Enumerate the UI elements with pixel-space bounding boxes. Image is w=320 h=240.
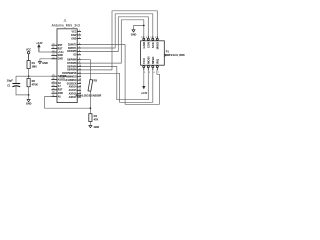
wire from P1 bottom pin 1 to +3.3V bbox=[143, 70, 145, 86]
svg-text:5: 5 bbox=[150, 37, 151, 39]
svg-text:D9/PWM: D9/PWM bbox=[67, 70, 76, 72]
svg-text:D3/INT1: D3/INT1 bbox=[68, 48, 77, 50]
svg-text:470K: 470K bbox=[32, 83, 38, 87]
svg-text:CSN: CSN bbox=[146, 42, 150, 48]
svg-text:22: 22 bbox=[52, 51, 54, 53]
ground symbol near P1 top bbox=[132, 30, 135, 32]
J1 value label Arduino_Mini_3v3 bbox=[52, 23, 80, 27]
svg-text:GND: GND bbox=[131, 34, 137, 37]
R1 reference label bbox=[32, 61, 36, 65]
IC P1 NRF24L01_BRK body bbox=[141, 41, 165, 65]
svg-text:28: 28 bbox=[52, 85, 54, 87]
svg-text:ANALOGSENSOR: ANALOGSENSOR bbox=[75, 93, 102, 97]
svg-text:6: 6 bbox=[79, 50, 80, 52]
R2 value 470K bbox=[32, 83, 38, 87]
junction R1/R2/J1 tap bbox=[28, 75, 30, 77]
svg-text:1M0: 1M0 bbox=[32, 65, 38, 69]
junction C1/R2/ground bbox=[28, 94, 30, 96]
svg-text:VCC: VCC bbox=[142, 57, 146, 64]
J1 left-side pin name labels bbox=[58, 45, 67, 98]
GND net label below R4 bbox=[94, 126, 100, 129]
svg-text:25: 25 bbox=[52, 75, 54, 77]
svg-text:D4/PWM: D4/PWM bbox=[67, 50, 76, 53]
wire C1 top to battery-sense junction bbox=[16, 75, 29, 77]
svg-text:MISO: MISO bbox=[151, 56, 155, 64]
wire GND from J1 left pin row 58.8 bbox=[40, 59, 51, 62]
ANALOGSENSOR label bbox=[75, 93, 102, 97]
P1 top pin stubs with inverted-pin circles bbox=[143, 36, 159, 40]
svg-text:RST: RST bbox=[58, 90, 63, 92]
svg-text:MOSI: MOSI bbox=[146, 56, 150, 64]
GND net label below R2 bbox=[26, 103, 32, 106]
svg-text:13: 13 bbox=[79, 75, 81, 77]
svg-text:12: 12 bbox=[79, 72, 81, 74]
power symbol +3.3V below P1 (arrow down) bbox=[143, 86, 145, 88]
wire from J1 pin row 73.3 under module to P1 bottom pin 3 bbox=[81, 70, 153, 102]
resistor R4 body bbox=[89, 114, 92, 122]
svg-text:3: 3 bbox=[79, 37, 80, 39]
svg-text:9: 9 bbox=[79, 62, 80, 64]
VCC net label bbox=[26, 49, 31, 52]
svg-text:31: 31 bbox=[52, 95, 54, 97]
svg-text:A5/SCL: A5/SCL bbox=[58, 78, 67, 81]
svg-text:29: 29 bbox=[52, 88, 54, 90]
svg-text:GND: GND bbox=[142, 42, 146, 48]
svg-text:J1: J1 bbox=[63, 19, 66, 23]
svg-text:R4: R4 bbox=[94, 114, 98, 118]
wire from J1 pin row 48 looping over top to P1 top pin 3 bbox=[81, 14, 153, 48]
svg-text:D10/PWM/SS: D10/PWM/SS bbox=[62, 73, 77, 75]
P1 value label NRF24L01_BRK bbox=[166, 54, 185, 57]
svg-text:10µF: 10µF bbox=[7, 79, 14, 83]
ground symbol below R2 bbox=[27, 99, 30, 101]
R4 reference label bbox=[94, 114, 98, 118]
J1 right-side pin stubs bbox=[77, 32, 81, 98]
svg-text:2: 2 bbox=[79, 34, 80, 36]
svg-text:D13/SCK: D13/SCK bbox=[67, 83, 77, 85]
svg-text:26: 26 bbox=[52, 78, 54, 80]
svg-text:24: 24 bbox=[52, 57, 54, 59]
svg-text:A0/D14: A0/D14 bbox=[69, 86, 78, 89]
svg-text:GND: GND bbox=[42, 62, 48, 65]
+3.3V net label below P1 bbox=[141, 92, 148, 95]
svg-text:GND: GND bbox=[71, 38, 76, 40]
svg-text:5: 5 bbox=[79, 47, 80, 49]
P1 bottom pin stubs with inverted-pin circles bbox=[143, 66, 159, 71]
svg-text:47K: 47K bbox=[94, 118, 99, 122]
resistor R1 body bbox=[27, 61, 30, 69]
junction on P1 pin 1 wire bbox=[143, 25, 145, 27]
P1 top pin numbers bbox=[141, 37, 156, 39]
svg-text:RST: RST bbox=[58, 48, 63, 50]
resistor R3 analog sensor (slanted body) bbox=[88, 79, 93, 91]
wire R1 bottom to R2 top with tap to J1 bbox=[28, 69, 30, 79]
svg-text:D7/PWM: D7/PWM bbox=[67, 63, 76, 65]
svg-text:IRQ: IRQ bbox=[155, 58, 159, 64]
op-amp-style IC body J1 Arduino_Mini_3v3 bbox=[57, 29, 77, 103]
svg-text:21: 21 bbox=[52, 47, 54, 49]
P1 antenna mark on right edge bbox=[164, 54, 166, 57]
J1 reference designator label bbox=[63, 19, 66, 23]
P1 bottom pin name labels (vertical) bbox=[142, 56, 160, 64]
svg-text:+3.3v: +3.3v bbox=[58, 52, 65, 54]
svg-text:1: 1 bbox=[144, 72, 145, 74]
svg-text:3: 3 bbox=[155, 37, 156, 39]
svg-text:A4/SDA: A4/SDA bbox=[58, 75, 67, 78]
C1 reference label bbox=[7, 83, 11, 87]
R1 value 1M0 bbox=[32, 65, 38, 69]
wire GND branch from P1 top pin 1 bbox=[134, 26, 144, 30]
svg-text:VCC: VCC bbox=[72, 31, 77, 33]
wire from J1 pin row 51.4 looping over top to P1 top pin 2 bbox=[81, 17, 148, 52]
svg-text:D2/INT0: D2/INT0 bbox=[68, 44, 77, 46]
svg-text:R3: R3 bbox=[94, 79, 98, 83]
resistor R2 body bbox=[27, 79, 30, 87]
svg-text:C1: C1 bbox=[7, 83, 11, 87]
GND net label left of J1 bbox=[42, 62, 48, 65]
P1 reference designator bbox=[166, 50, 170, 53]
R3 reference label bbox=[94, 79, 98, 83]
svg-text:8: 8 bbox=[79, 58, 80, 60]
svg-text:1: 1 bbox=[79, 30, 80, 32]
svg-text:D6/PWM: D6/PWM bbox=[67, 60, 76, 62]
svg-text:4: 4 bbox=[79, 43, 80, 45]
wire junction down to C1 bbox=[15, 76, 17, 83]
svg-text:R2: R2 bbox=[32, 79, 36, 83]
svg-text:2: 2 bbox=[149, 72, 150, 74]
svg-text:7: 7 bbox=[158, 72, 159, 74]
C1 value 10uF bbox=[7, 79, 14, 83]
svg-text:4: 4 bbox=[153, 72, 154, 74]
svg-text:D8/PWM: D8/PWM bbox=[67, 66, 76, 68]
svg-text:D12/MISO: D12/MISO bbox=[66, 80, 77, 82]
J1 left-side pin stubs bbox=[51, 45, 57, 96]
svg-text:6: 6 bbox=[146, 37, 147, 39]
wire R4 bottom to ground bbox=[89, 122, 91, 126]
svg-text:16: 16 bbox=[79, 85, 81, 87]
R2 reference label bbox=[32, 79, 36, 83]
P1 top pin name labels (vertical) bbox=[142, 41, 160, 49]
svg-text:SCK: SCK bbox=[151, 41, 155, 48]
svg-text:10: 10 bbox=[79, 65, 81, 67]
svg-text:8: 8 bbox=[141, 37, 142, 39]
svg-text:7: 7 bbox=[79, 53, 80, 55]
wire C1 bottom to ground junction bbox=[16, 87, 29, 95]
svg-text:+3.3V: +3.3V bbox=[36, 42, 43, 45]
wire R3 bottom to junction bbox=[89, 91, 91, 114]
svg-text:11: 11 bbox=[79, 68, 81, 70]
svg-text:GND: GND bbox=[26, 103, 32, 106]
wire from J1 right pin row 59.7 to R3 top bbox=[81, 60, 90, 80]
P1 bottom pin numbers bbox=[144, 72, 159, 74]
svg-text:15: 15 bbox=[79, 82, 81, 84]
R4 value 47K bbox=[94, 118, 99, 122]
svg-text:GND: GND bbox=[94, 126, 100, 129]
svg-text:+3.3V: +3.3V bbox=[141, 92, 148, 95]
svg-text:NRF24L01_BRK: NRF24L01_BRK bbox=[166, 54, 185, 57]
svg-text:14: 14 bbox=[79, 79, 81, 81]
wire loop from J1 left pin row 96.6 around bottom to sensor junction bbox=[45, 97, 91, 109]
svg-text:27: 27 bbox=[52, 82, 54, 84]
wire battery-sense tap to J1 left pin row 76.2 bbox=[29, 75, 52, 77]
J1 right-side pin numbers bbox=[79, 30, 81, 98]
ground symbol left of J1 bbox=[38, 62, 41, 64]
power symbol VCC bbox=[27, 51, 29, 60]
wire R2 bottom to ground bbox=[28, 87, 30, 100]
capacitor C1 (polarized) plates bbox=[12, 84, 20, 87]
wire GND net from J1 pin row 63.1 looping over top to P1 top pin 1 bbox=[81, 20, 144, 63]
svg-text:R1: R1 bbox=[32, 61, 36, 65]
svg-text:17: 17 bbox=[79, 89, 81, 91]
+3.3V net label left of J1 bbox=[36, 42, 43, 45]
wire from J1 pin row 66.5 under module to P1 bottom pin 2 bbox=[81, 67, 148, 100]
ground symbol below R4 bbox=[89, 125, 92, 127]
junction sensor node bbox=[90, 107, 92, 109]
J1 left-side pin numbers bbox=[52, 44, 54, 97]
svg-text:MISO: MISO bbox=[155, 41, 159, 49]
svg-text:23: 23 bbox=[52, 54, 54, 56]
GND net label at P1 top bbox=[131, 34, 137, 37]
svg-text:GND: GND bbox=[58, 59, 63, 61]
wire D13/SCK from J1 pin row 69.9 looping over top to P1 top pin 4 bbox=[81, 11, 157, 70]
svg-text:RAW: RAW bbox=[71, 34, 77, 37]
svg-text:Arduino_Mini_3v3: Arduino_Mini_3v3 bbox=[52, 23, 80, 27]
wire +3.3V to J1 left pin row 52 bbox=[39, 51, 51, 53]
power symbol +3.3V left of J1 (arrow up) bbox=[38, 45, 40, 52]
svg-text:RST: RST bbox=[58, 45, 63, 47]
svg-text:GND: GND bbox=[58, 93, 63, 95]
svg-text:GND: GND bbox=[58, 55, 63, 57]
svg-text:A1/D15: A1/D15 bbox=[69, 89, 78, 92]
wire IRQ from J1 pin row 44.6 down and around to P1 bottom pin 4 bbox=[81, 45, 159, 105]
svg-text:VCC: VCC bbox=[26, 49, 31, 52]
svg-text:20: 20 bbox=[52, 44, 54, 46]
J1 right-side pin name labels bbox=[60, 31, 78, 99]
svg-text:30: 30 bbox=[52, 92, 54, 94]
